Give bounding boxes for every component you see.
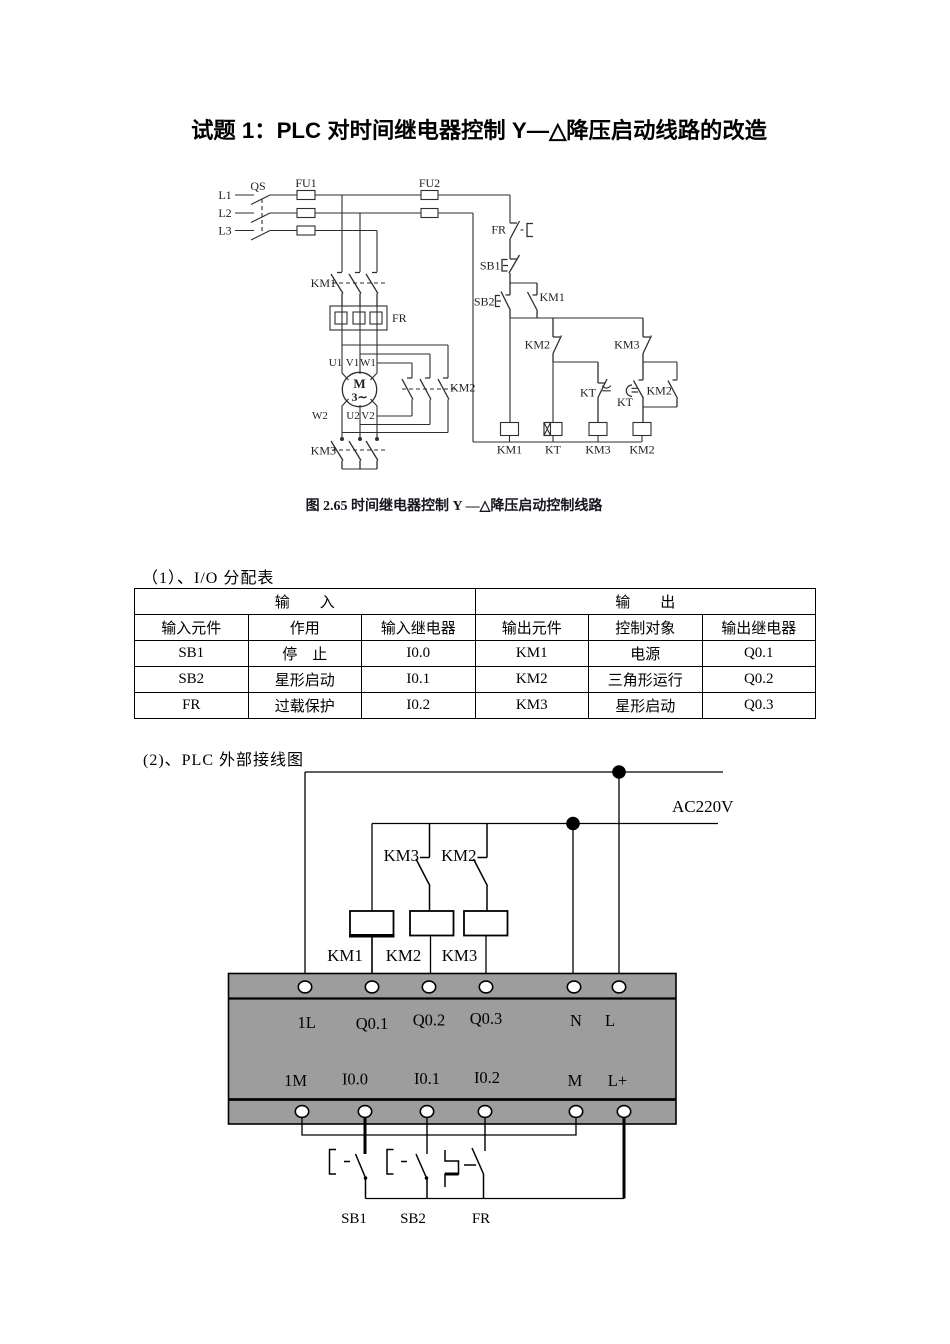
disconnector QS pole 1 (251, 195, 270, 205)
coil KM3 (589, 423, 607, 436)
FR heater element 3 (370, 312, 382, 324)
svg-text:FR: FR (491, 223, 506, 237)
wire phase V to motor (359, 306, 361, 374)
svg-text:KT: KT (545, 443, 562, 457)
title (4, 113, 950, 145)
terminal N (567, 981, 580, 993)
terminal I0.0 (358, 1106, 371, 1118)
svg-text:KM3: KM3 (614, 338, 639, 352)
FR reset linkage (521, 229, 526, 231)
wire L1 FU2 to control (438, 194, 510, 196)
wire KM2 self-hold loop bottom (643, 406, 677, 408)
wire KM2 coil to Q0.2 (430, 936, 432, 982)
wire left control rail (472, 213, 474, 442)
wire star point bridge (342, 468, 377, 470)
PLC top strip line (229, 997, 677, 999)
svg-text:KM3: KM3 (311, 444, 336, 458)
fuse FU2 pole 2 (421, 209, 438, 218)
junction dots KM3 tops (340, 437, 344, 441)
fuse FU1 pole 3 (297, 226, 315, 235)
coil KM1 (501, 423, 519, 436)
svg-text:N: N (570, 1011, 582, 1030)
wire KT coil branch (552, 362, 554, 423)
svg-text:V2: V2 (361, 410, 374, 422)
PLC bottom strip line (229, 1098, 677, 1101)
svg-text:L2: L2 (218, 206, 231, 220)
wire U2 to KM2 pole2 bottom (360, 400, 430, 425)
contact KM3 aux NO (643, 318, 652, 362)
svg-text:KM2: KM2 (450, 381, 475, 395)
terminal 1M (295, 1106, 308, 1118)
wire KM2 self-hold loop top (643, 362, 677, 380)
wire motor W2 down (342, 399, 349, 439)
svg-text:KM2: KM2 (386, 946, 421, 965)
svg-text:W2: W2 (312, 410, 328, 422)
wire N drop to PLC (572, 824, 574, 982)
wire W2 to KM2 pole3 bottom (342, 400, 448, 433)
contact KM1 aux NO self-hold (528, 283, 538, 318)
wire L3 FU1 to motor branch (315, 230, 377, 232)
contactor KM1 main pole 3 (366, 273, 378, 307)
thermal overload FR body (330, 306, 387, 330)
svg-text:L+: L+ (608, 1071, 627, 1090)
wire L2 FU1 to FU2 (315, 212, 421, 214)
thermal contact FR NC (510, 221, 520, 259)
pushbutton SB2 (387, 1150, 407, 1175)
svg-text:FU1: FU1 (295, 176, 316, 190)
wire phase W upper (376, 231, 378, 273)
svg-text:KM2: KM2 (647, 384, 672, 398)
wire L drop to PLC (618, 772, 620, 981)
svg-text:KT: KT (617, 395, 634, 409)
svg-text:KM3: KM3 (442, 946, 477, 965)
contactor KM2 linkage (402, 388, 456, 390)
terminal L+ (617, 1106, 630, 1118)
svg-text:KM3: KM3 (384, 846, 419, 865)
junction dot L (612, 765, 626, 779)
coil KM1 (350, 911, 394, 936)
wire motor U2 down (359, 405, 361, 439)
svg-text:I0.2: I0.2 (474, 1068, 500, 1087)
wire L3 to FU1 (270, 230, 297, 232)
svg-text:U1: U1 (329, 357, 342, 369)
pushbutton SB2 NO (501, 283, 511, 318)
svg-text:I0.0: I0.0 (342, 1070, 368, 1089)
wire KM2NC to KT branch (553, 361, 598, 363)
svg-text:SB1: SB1 (341, 1211, 367, 1227)
svg-text:L1: L1 (218, 188, 231, 202)
svg-text:1M: 1M (284, 1071, 307, 1090)
svg-text:QS: QS (250, 179, 265, 193)
svg-text:SB1: SB1 (480, 259, 501, 273)
svg-text:W1: W1 (360, 357, 376, 369)
wire KM1 coil to Q0.1 (371, 936, 373, 982)
contact KM3 interlock (416, 824, 430, 912)
fuse FU1 pole 1 (297, 191, 315, 200)
wire AC L top (305, 771, 723, 773)
contact KM2 aux NO self-hold (668, 380, 678, 407)
wire phase U upper (341, 195, 343, 272)
wire L2 FU2 to control (438, 212, 473, 214)
motor M 3-phase (342, 372, 376, 406)
svg-text:V1: V1 (346, 357, 359, 369)
svg-text:KM1: KM1 (540, 290, 565, 304)
contact KT NC delayed (598, 362, 607, 423)
wire L2 stub (235, 212, 254, 214)
wire L2 to FU1 (270, 212, 297, 214)
thermal contact FR (445, 1150, 459, 1187)
wire input common rail (366, 1198, 625, 1200)
wire L1 stub (235, 194, 254, 196)
terminal 1L (298, 981, 311, 993)
wire I0.0 to SB1 (364, 1117, 367, 1154)
contact KM2 NC interlock (553, 318, 562, 362)
wire L3 stub (235, 230, 254, 232)
svg-text:FR: FR (472, 1211, 490, 1227)
svg-text:KT: KT (580, 386, 597, 400)
PLC body (229, 974, 677, 1125)
svg-text:U2: U2 (346, 410, 359, 422)
wire KM1 coil branch (509, 318, 511, 423)
terminal Q0.3 (479, 981, 492, 993)
svg-text:SB2: SB2 (400, 1211, 426, 1227)
terminal Q0.1 (365, 981, 378, 993)
wire KM3 coil to Q0.3 (485, 936, 487, 982)
wire 1L drop to PLC (304, 772, 306, 981)
wire I0.1 to SB2 (426, 1117, 428, 1154)
contactor KM2 delta pole 1 (402, 378, 413, 400)
svg-text:FR: FR (392, 311, 407, 325)
svg-text:I0.1: I0.1 (414, 1069, 440, 1088)
wire phase W to motor (371, 306, 378, 380)
svg-text:KM1: KM1 (497, 443, 522, 457)
wire L1 to FU1 (270, 194, 297, 196)
wire bottom control rail (473, 441, 642, 443)
contactor KM3 star pole 1 (331, 441, 343, 469)
disconnector QS pole 3 (251, 231, 270, 241)
contactor KM1 linkage (332, 282, 388, 284)
coil KM3 (464, 911, 508, 936)
terminal L (612, 981, 625, 993)
svg-text:KM2: KM2 (441, 846, 476, 865)
svg-text:KM1: KM1 (311, 276, 336, 290)
svg-text:L3: L3 (218, 224, 231, 238)
wire Q0.1 drop to KM1 coil (371, 824, 373, 912)
disconnector QS linkage (261, 199, 263, 234)
contactor KM3 star pole 3 (366, 441, 378, 469)
contactor KM2 delta pole 2 (420, 378, 431, 400)
svg-text:AC220V: AC220V (672, 797, 734, 816)
wire W1 to KM2 pole1 top (377, 363, 412, 378)
wire I0.2 to FR (484, 1117, 486, 1151)
svg-text:SB2: SB2 (474, 295, 495, 309)
pushbutton SB1 (330, 1150, 351, 1175)
I/O table (134, 588, 816, 719)
caption of figure 2.65 (154, 495, 754, 515)
coil KT with flag (544, 423, 562, 436)
FR heater element 2 (353, 312, 365, 324)
svg-text:KM2: KM2 (525, 338, 550, 352)
svg-text:FU2: FU2 (419, 176, 440, 190)
fuse FU1 pole 2 (297, 209, 315, 218)
svg-text:KM1: KM1 (327, 946, 362, 965)
svg-text:3∼: 3∼ (351, 390, 367, 404)
contactor KM3 star pole 2 (349, 441, 361, 469)
svg-text:M: M (568, 1071, 583, 1090)
wire V2 to KM2 pole1 bottom (377, 400, 412, 417)
svg-text:Q0.2: Q0.2 (413, 1011, 446, 1030)
disconnector QS pole 2 (251, 213, 270, 223)
contact KM2 interlock (474, 824, 488, 912)
coil KM2 (633, 423, 651, 436)
wire L1 FU1 to FU2 (315, 194, 421, 196)
wire phase U to motor (342, 306, 349, 380)
wire motor V2 down (371, 399, 378, 439)
terminal M (569, 1106, 582, 1118)
svg-text:L: L (605, 1011, 615, 1030)
svg-text:KM3: KM3 (585, 443, 610, 457)
wire AC N second (372, 823, 718, 825)
heading (1) I/O allocation table (142, 564, 274, 588)
svg-text:Q0.1: Q0.1 (356, 1014, 389, 1033)
wire control rail (510, 317, 643, 319)
terminal Q0.2 (422, 981, 435, 993)
pushbutton SB1 NC (509, 255, 520, 283)
wire L+ drop (623, 1117, 626, 1199)
contactor KM1 main pole 2 (349, 273, 361, 307)
heading (2) PLC external wiring diagram (143, 746, 304, 770)
junction dot N (566, 817, 580, 831)
terminal I0.2 (478, 1106, 491, 1118)
contactor KM1 main pole 1 (331, 273, 343, 307)
svg-text:Q0.3: Q0.3 (470, 1009, 503, 1028)
wire control main drop (509, 195, 511, 223)
contact KT NO delayed (634, 362, 644, 423)
wire U1 to KM2 pole3 top (342, 345, 448, 378)
contactor KM2 delta pole 3 (438, 378, 449, 400)
terminal I0.1 (420, 1106, 433, 1118)
svg-text:M: M (353, 376, 365, 391)
FR heater element 1 (335, 312, 347, 324)
wire V1 to KM2 pole2 top (360, 354, 430, 378)
wire SB1 to SB2 node (510, 282, 537, 284)
svg-text:1L: 1L (298, 1013, 316, 1032)
wire 1M to M common (302, 1117, 576, 1135)
svg-text:KM2: KM2 (629, 443, 654, 457)
contactor KM3 linkage (332, 449, 388, 451)
wire phase V upper (359, 213, 361, 272)
coil KM2 (410, 911, 454, 936)
fuse FU2 pole 1 (421, 191, 438, 200)
